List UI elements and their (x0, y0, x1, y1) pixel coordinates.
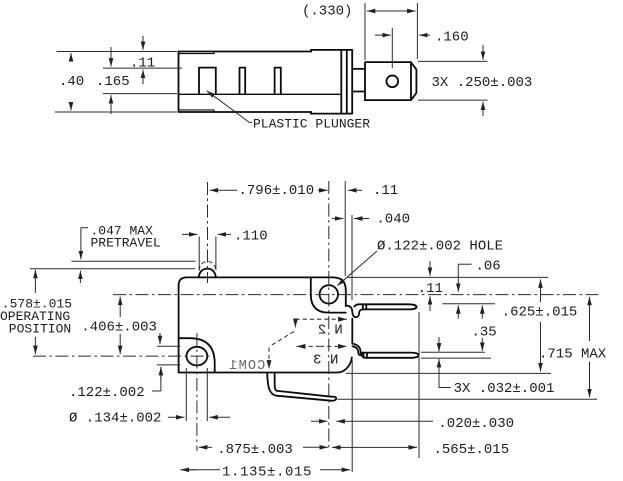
parting line of housing (179, 93, 342, 95)
svg-text:POSITION: POSITION (9, 322, 71, 337)
svg-text:2: 2 (318, 323, 326, 339)
extension line blade tips vertical (418, 312, 420, 458)
dimension .06 (458, 258, 500, 318)
extension line terminal bend outer (351, 215, 353, 472)
svg-text:COM1: COM1 (228, 359, 265, 374)
svg-text:N: N (334, 323, 342, 339)
dashed diagonal (mechanism) (269, 332, 294, 347)
mounting hole boss (bottom left) interior (179, 338, 215, 372)
svg-text:.715 MAX: .715 MAX (539, 347, 607, 363)
terminal hole side view (386, 75, 398, 87)
dimension .040 (332, 212, 410, 228)
dimension .020±.030 (311, 416, 514, 432)
svg-text:.122±.002: .122±.002 (69, 385, 145, 401)
svg-text:.796±.010: .796±.010 (239, 183, 315, 199)
svg-text:.625±.015: .625±.015 (502, 305, 578, 321)
dimension .11 (top view) (130, 36, 155, 84)
dimension .565±.015 (332, 442, 509, 458)
plunger slot (plastic plunger visible) (199, 68, 216, 95)
svg-text:.165: .165 (96, 74, 130, 90)
dimension .796±.010 (210, 183, 328, 199)
svg-text:.11: .11 (373, 183, 398, 199)
extension lines left hole edges (186, 368, 207, 421)
body right edge upper segment (351, 319, 353, 344)
leader Ø.122±.002 HOLE (337, 239, 503, 286)
dimension .047 MAX PRETRAVEL (80, 224, 160, 284)
dimension .625±.015 (502, 279, 578, 371)
dimension .122±.002 (left hole height) (69, 333, 161, 401)
dimension .715 MAX (539, 297, 607, 398)
dimension .165 (96, 47, 182, 114)
leader PLASTIC PLUNGER (207, 91, 370, 132)
plunger free position (hidden) (199, 262, 216, 271)
svg-text:.875±.003: .875±.003 (217, 442, 293, 458)
plunger boot seam (179, 52, 215, 113)
dimension .578±.015 OPERATING POSITION (0, 270, 72, 354)
svg-text:.160: .160 (435, 30, 469, 46)
svg-text:.35: .35 (472, 325, 497, 341)
vent slot 2 (240, 68, 246, 95)
dimension .35 (472, 305, 497, 351)
centerline upper hole vertical (328, 181, 330, 450)
dimension .875±.003 (199, 442, 328, 458)
svg-text:PLASTIC PLUNGER: PLASTIC PLUNGER (253, 117, 370, 132)
switch body outline (179, 277, 346, 372)
dimension .40 (body height) (55, 52, 177, 113)
plunger (operating position, solid) (199, 269, 216, 278)
svg-text:N: N (330, 353, 338, 369)
svg-text:3: 3 (313, 353, 321, 369)
dashed line to terminal 2 (296, 318, 348, 320)
dashed arrow to common lever (268, 348, 270, 370)
extension lines plunger width (199, 237, 216, 271)
dimension .110 (182, 229, 268, 245)
svg-text:.406±.003: .406±.003 (81, 320, 157, 336)
svg-text:(.330): (.330) (302, 4, 352, 20)
svg-text:.11: .11 (418, 281, 443, 297)
extension line lever bottom (338, 398, 598, 400)
mounting hole Ø.134 x .122 oval (bottom left) (187, 347, 208, 366)
centerline horizontal through upper hole (113, 294, 600, 296)
dimension (.330) (302, 3, 417, 60)
svg-text:1.135±.015: 1.135±.015 (222, 465, 312, 481)
terminal 1 lever (common, bottom) (267, 373, 336, 401)
svg-text:Ø.122±.002 HOLE: Ø.122±.002 HOLE (377, 239, 503, 255)
vent slot 3 (275, 68, 281, 95)
centerline plunger vertical (207, 182, 209, 283)
svg-text:.11: .11 (130, 56, 155, 72)
svg-text:.040: .040 (376, 212, 410, 228)
terminal 3 blade (362, 353, 418, 358)
terminal neck side view (352, 69, 365, 92)
svg-text:.110: .110 (234, 229, 268, 245)
dimension .406±.003 (81, 297, 157, 355)
extension lines blade 3 thickness (421, 352, 491, 358)
dimension Ø.134±.002 (69, 411, 230, 427)
hidden internal mechanism dashed box (269, 319, 347, 369)
switch body side view (179, 50, 353, 114)
dimension .11 (body top to hole centerline) (418, 261, 443, 311)
svg-text:.565±.015: .565±.015 (434, 442, 510, 458)
extension line body right edge (344, 181, 346, 276)
dimension 1.135±.015 (181, 465, 351, 481)
terminal blade side view with chamfered tip (365, 62, 416, 100)
dimension 3X .250±.003 (terminal width) (418, 45, 532, 116)
extension line body top right (347, 276, 548, 278)
free position line (71, 260, 195, 262)
svg-text:Ø .134±.002: Ø .134±.002 (69, 411, 161, 427)
centerline lower hole vertical (196, 333, 198, 451)
terminal 3 hook (lower right) (352, 344, 366, 358)
mounting hole pad (top right) interior fillet (311, 277, 346, 312)
svg-text:3X .250±.003: 3X .250±.003 (432, 75, 533, 91)
terminal 2 hook (upper right) (346, 306, 363, 318)
dimension .160 (375, 28, 469, 68)
terminal 2 blade (354, 304, 416, 309)
extension line blade 2 top (442, 303, 495, 305)
svg-text:.020±.030: .020±.030 (438, 416, 514, 432)
dashed line to terminal 3 (297, 345, 321, 347)
extension line body bottom right (346, 372, 551, 374)
mounting hole Ø.122 (top right) (320, 285, 338, 303)
end cap of body (341, 50, 352, 114)
centerline horizontal through lower hole (33, 355, 214, 357)
svg-text:3X .032±.001: 3X .032±.001 (454, 381, 555, 397)
mirrored marking N3 (313, 353, 338, 369)
dimension 3X .032±.001 (439, 337, 554, 397)
body bottom right corner and bottom edge (179, 357, 352, 372)
svg-text:PRETRAVEL: PRETRAVEL (91, 236, 161, 251)
svg-text:.06: .06 (476, 258, 501, 274)
extension lines left hole vertical refs (157, 346, 180, 365)
dimension .11 (bottom view) (348, 183, 398, 199)
operating position line (30, 268, 195, 270)
svg-text:.40: .40 (59, 74, 84, 90)
mirrored marking N2 (318, 323, 343, 339)
dashed vertical with arrow (294, 319, 296, 327)
